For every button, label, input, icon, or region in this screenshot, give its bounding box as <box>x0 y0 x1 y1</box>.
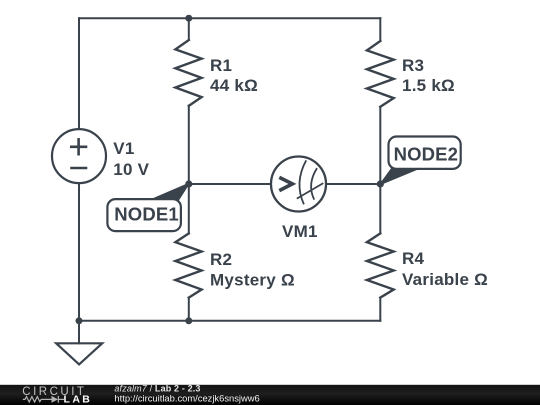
svg-text:R1: R1 <box>210 56 232 75</box>
svg-text:Mystery Ω: Mystery Ω <box>210 270 295 289</box>
svg-text:LAB: LAB <box>64 394 93 405</box>
svg-text:10 V: 10 V <box>113 160 149 179</box>
svg-text:44 kΩ: 44 kΩ <box>210 76 258 95</box>
svg-text:R4: R4 <box>402 249 425 268</box>
svg-text:NODE1: NODE1 <box>114 204 179 225</box>
svg-text:R3: R3 <box>402 56 424 75</box>
svg-text:http://circuitlab.com/cezjk6sn: http://circuitlab.com/cezjk6snsjww6 <box>114 392 259 403</box>
svg-text:VM1: VM1 <box>282 222 318 241</box>
svg-text:V1: V1 <box>113 139 134 158</box>
svg-text:Variable Ω: Variable Ω <box>402 270 488 289</box>
svg-text:1.5 kΩ: 1.5 kΩ <box>402 76 455 95</box>
svg-text:NODE2: NODE2 <box>394 144 459 165</box>
svg-text:R2: R2 <box>210 250 232 269</box>
